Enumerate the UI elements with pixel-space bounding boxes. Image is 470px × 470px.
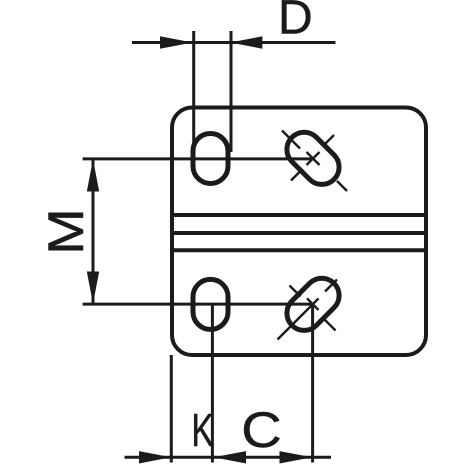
centerline top-left hole / M top line (83, 157, 313, 160)
extension line D right (230, 31, 233, 152)
slot top-right short-axis tick lower (291, 172, 300, 181)
svg-text:M: M (39, 208, 95, 255)
slot bottom-right short-axis tick upper-left (290, 286, 301, 297)
extension line K (hole center) (211, 305, 214, 463)
arrow bottom K/C left (214, 451, 247, 463)
slot top-right short-axis tick upper (324, 135, 334, 145)
arrow bottom C right (280, 451, 313, 463)
svg-text:C: C (241, 403, 281, 459)
slot top-right center cross stroke 2 (307, 152, 320, 165)
dimension line M (92, 159, 95, 304)
slot bottom-right long-axis centerline (through center) (278, 299, 319, 340)
slot top-right (45deg) (280, 125, 346, 191)
arrow bottom outer-left (139, 451, 171, 463)
slot bottom-right (-45deg) (280, 271, 346, 337)
dimension line bottom (125, 456, 332, 459)
groove line 1 (170, 213, 428, 217)
arrow D left (160, 36, 193, 48)
slot bottom-right short-axis tick lower-right (325, 320, 336, 331)
extension line lower left (plate edge) (170, 355, 173, 463)
extension line C (slot center) (311, 304, 314, 462)
hole top-left (193, 134, 228, 184)
slot top-right center cross stroke 1 (307, 152, 320, 165)
hole bottom-left (193, 279, 228, 329)
svg-text:K: K (191, 405, 214, 456)
slot top-right long-axis centerline upper segment (282, 131, 300, 149)
groove line 3 (170, 248, 428, 252)
arrow M top (87, 159, 99, 191)
extension line D left (192, 31, 195, 152)
centerline bottom-left hole / M bottom line (83, 303, 313, 306)
arrow D right (230, 36, 263, 48)
arrow M bottom (87, 272, 99, 304)
dimension line D (132, 41, 336, 44)
slot bottom-right long-axis tick upper (325, 280, 337, 292)
groove line 2 (170, 231, 428, 235)
plate outline (172, 108, 426, 356)
slot top-right long-axis centerline lower segment (337, 181, 347, 191)
svg-text:D: D (278, 0, 313, 45)
slot bottom-right center cross stroke (307, 298, 319, 310)
